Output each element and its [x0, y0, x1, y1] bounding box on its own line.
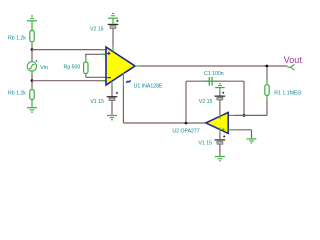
- node A junction (+in rail): [31, 48, 34, 51]
- capacitor C1 100n: [209, 77, 212, 86]
- wire U2 inverting input line: [234, 114, 267, 116]
- ground (above U2 V+ battery, flipped up): [215, 83, 225, 95]
- svg-text:U2 OPA277: U2 OPA277: [172, 129, 199, 135]
- ground (below U2 V- battery): [215, 156, 225, 162]
- svg-text:U1 INA128E: U1 INA128E: [134, 83, 163, 89]
- ground (below Rb2): [27, 107, 37, 113]
- ground (below battery V1): [107, 115, 117, 120]
- wire U2 non-inverting input to ground: [228, 129, 233, 131]
- svg-text:V1 15: V1 15: [199, 141, 213, 147]
- op-amp U1 INA128: [106, 47, 135, 85]
- svg-text:Rb 1.2k: Rb 1.2k: [8, 91, 26, 97]
- pin -In lead (green): [102, 80, 106, 82]
- ground (above Rb1, flipped up): [27, 15, 37, 30]
- wire -In rail: [32, 80, 106, 82]
- node B junction (-in rail): [31, 79, 34, 82]
- wire battery V1 (U2) to ground: [219, 144, 221, 156]
- wire Rg bottom pin: [85, 74, 87, 78]
- wire Rg top pin: [86, 53, 106, 55]
- wire U1 Ref pin down: [122, 73, 124, 86]
- wire Rb1 to node A: [31, 45, 33, 49]
- wire U1 output rail to Vout: [135, 65, 140, 67]
- resistor R1 1.1MEG: [265, 85, 269, 96]
- wire +In rail: [32, 49, 106, 51]
- battery V1 15 (U2 negative supply): [215, 135, 226, 144]
- node C junction (U2 out / C1 box): [185, 122, 188, 125]
- wire feedback box left vertical: [185, 81, 187, 123]
- battery V2 15 (U2 positive supply): [215, 92, 226, 100]
- resistor Rb1 1.2k: [30, 31, 34, 46]
- wire R1 top (from Vout rail): [266, 66, 268, 81]
- wire feedback box right vertical: [243, 81, 245, 115]
- output pin Vout: [288, 64, 295, 70]
- svg-text:R1 1.1MEG: R1 1.1MEG: [274, 91, 301, 97]
- node D junction (U2 inverting input): [243, 114, 246, 117]
- battery V2 15 (U1 positive supply): [108, 20, 119, 29]
- svg-text:V1 15: V1 15: [90, 99, 104, 105]
- wire U2 V- supply pin: [219, 128, 221, 132]
- wire Vin bottom to node B: [31, 71, 33, 73]
- wire U1 V- supply pin: [111, 81, 113, 85]
- wire battery V1 to ground: [111, 101, 113, 115]
- ground (above battery V2, flipped up): [108, 13, 118, 24]
- wire U2 V+ supply pin: [219, 115, 221, 119]
- svg-text:V2 15: V2 15: [90, 27, 104, 33]
- svg-text:C1 100n: C1 100n: [204, 71, 224, 77]
- ground (U2 non-inverting input): [247, 138, 257, 143]
- resistor Rg 500: [84, 62, 88, 74]
- resistor Rb2 1.2k: [30, 90, 34, 108]
- node E junction (R1 tap on output rail): [265, 65, 268, 68]
- wire feedback box top: [186, 80, 244, 82]
- svg-text:Rb 1.2k: Rb 1.2k: [8, 35, 26, 41]
- wire R1 bottom: [266, 95, 268, 100]
- wire Ref to U2 output: [123, 122, 206, 124]
- svg-text:Vin: Vin: [40, 65, 48, 71]
- ref pin marker (blue): [126, 80, 130, 83]
- pin +In lead (green): [101, 49, 107, 51]
- op-amp U2 OPA277 (mirrored): [206, 112, 228, 133]
- svg-text:Rg 500: Rg 500: [64, 65, 81, 71]
- wire node B to Rb2: [31, 81, 33, 88]
- voltage source Vin: [27, 60, 37, 71]
- wire node A to Vin top: [31, 50, 33, 62]
- battery V1 15 (U1 negative supply): [107, 92, 118, 101]
- wire U1 V+ supply pin: [112, 47, 114, 52]
- svg-text:V2 15: V2 15: [199, 99, 213, 105]
- svg-text:Vout: Vout: [284, 55, 303, 65]
